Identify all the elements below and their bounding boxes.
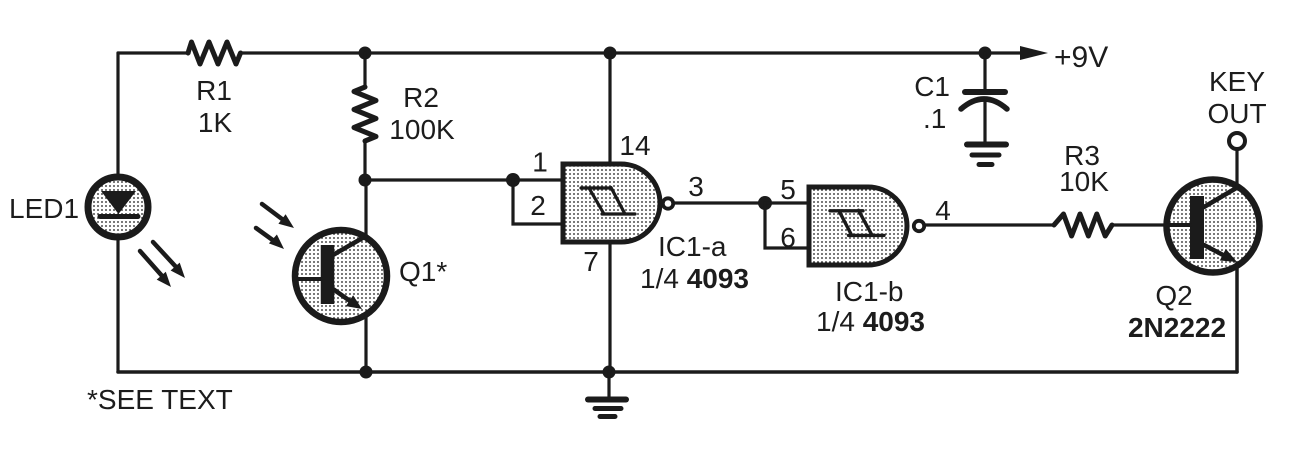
gate IC1-b (1/4 4093 Schmitt NAND) body: [809, 187, 907, 265]
svg-text:OUT: OUT: [1207, 98, 1266, 129]
svg-text:Q1*: Q1*: [399, 256, 447, 287]
ground C1: [967, 145, 1006, 165]
svg-text:1/4 4093: 1/4 4093: [640, 263, 749, 294]
svg-text:5: 5: [780, 174, 796, 205]
capacitor C1 bottom lead: [983, 102, 986, 142]
svg-text:KEY: KEY: [1209, 66, 1265, 97]
Q2 collector lead: [1204, 187, 1238, 207]
wire gate-a output to gate-b input: [675, 201, 765, 204]
wire left vertical (LED branch): [116, 53, 119, 372]
LED1 emission arrow 2: [140, 251, 171, 287]
Q1 base bar: [321, 245, 335, 304]
IC1-b output bubble: [914, 221, 924, 231]
svg-text:R2: R2: [403, 82, 439, 113]
Q1 emitter lead with arrow: [333, 289, 362, 309]
wire pin 14: [608, 53, 611, 166]
wire Q2 collector to KEY OUT terminal: [1235, 149, 1238, 188]
wire R3 to Q2 base: [1112, 223, 1190, 226]
node junction top rail / C1: [979, 47, 992, 60]
svg-text:7: 7: [583, 246, 599, 277]
node junction pin5/pin6 tie: [758, 196, 772, 210]
Q1 base lead: [295, 277, 321, 281]
LED1 triangle: [101, 191, 136, 214]
IC1-a hysteresis symbol: [581, 188, 635, 215]
svg-text:1/4 4093: 1/4 4093: [816, 306, 925, 337]
Q1 light arrow 2: [256, 228, 284, 249]
IC1-b hysteresis symbol: [830, 210, 884, 235]
wire pin 5: [765, 201, 811, 204]
svg-text:.1: .1: [923, 103, 946, 134]
Q2 base bar: [1190, 196, 1204, 259]
Q1 collector lead: [333, 236, 366, 255]
transistor Q2 body: [1167, 180, 1260, 273]
svg-text:10K: 10K: [1059, 166, 1109, 197]
node junction pin1/pin2 tie: [506, 173, 520, 187]
wire pin 6 drop: [765, 203, 811, 248]
transistor Q1 body: [295, 230, 387, 322]
IC1-a output bubble: [663, 198, 673, 208]
KEY OUT terminal: [1229, 133, 1245, 149]
wire top rail right segment: [241, 51, 1022, 54]
capacitor C1 bottom plate: [961, 99, 1007, 109]
svg-text:Q2: Q2: [1155, 280, 1192, 311]
wire R2 branch lower: [363, 141, 366, 180]
wire bottom rail: [118, 370, 1237, 374]
LED LED1 body: [88, 177, 148, 237]
resistor R2: [354, 87, 376, 141]
svg-text:2N2222: 2N2222: [1128, 312, 1226, 343]
wire Q1 emitter vertical: [364, 315, 367, 372]
LED1 emission arrow 1: [153, 242, 185, 278]
svg-text:6: 6: [780, 222, 796, 253]
svg-text:+9V: +9V: [1054, 41, 1108, 74]
Q2 emitter lead with arrow: [1204, 245, 1237, 262]
resistor R3: [1054, 214, 1112, 236]
node junction R2 / Q1 collector / gate input: [359, 174, 372, 187]
svg-text:LED1: LED1: [9, 193, 79, 224]
wire top rail left segment: [118, 51, 189, 54]
svg-text:14: 14: [619, 130, 650, 161]
node junction bottom rail / pin7-ground: [603, 366, 616, 379]
wire Q2 emitter vertical: [1235, 263, 1239, 372]
wire pin 2 drop: [513, 180, 565, 224]
resistor R1: [188, 42, 241, 64]
LED1 cathode bar: [100, 214, 138, 219]
wire gate-b output to R3: [926, 223, 1052, 226]
svg-text:1K: 1K: [198, 107, 233, 138]
wire pin 7: [608, 242, 611, 372]
svg-text:3: 3: [688, 171, 704, 202]
+9V arrow: [1020, 46, 1048, 60]
Q1 light arrow 1: [262, 204, 294, 228]
Q2 base lead: [1168, 223, 1190, 227]
wire pin 1: [513, 178, 565, 181]
capacitor C1 top lead: [983, 53, 986, 89]
svg-text:IC1-a: IC1-a: [658, 231, 727, 262]
svg-text:IC1-b: IC1-b: [835, 276, 903, 307]
node junction top rail / R2: [359, 47, 372, 60]
svg-text:1: 1: [532, 147, 548, 178]
svg-text:R1: R1: [196, 75, 232, 106]
svg-text:4: 4: [935, 195, 951, 226]
node junction top rail / pin14: [604, 47, 617, 60]
svg-text:*SEE TEXT: *SEE TEXT: [87, 384, 233, 415]
capacitor C1 top plate: [965, 89, 1005, 95]
svg-text:100K: 100K: [389, 114, 455, 145]
gate IC1-a (1/4 4093 Schmitt NAND) body: [563, 164, 660, 242]
wire gate input horizontal: [365, 178, 513, 181]
wire R2 branch upper: [363, 53, 366, 86]
node junction bottom rail / Q1: [360, 366, 373, 379]
ground main: [588, 372, 626, 417]
svg-text:2: 2: [530, 190, 546, 221]
wire Q1 collector vertical: [364, 180, 367, 237]
svg-text:C1: C1: [914, 71, 950, 102]
